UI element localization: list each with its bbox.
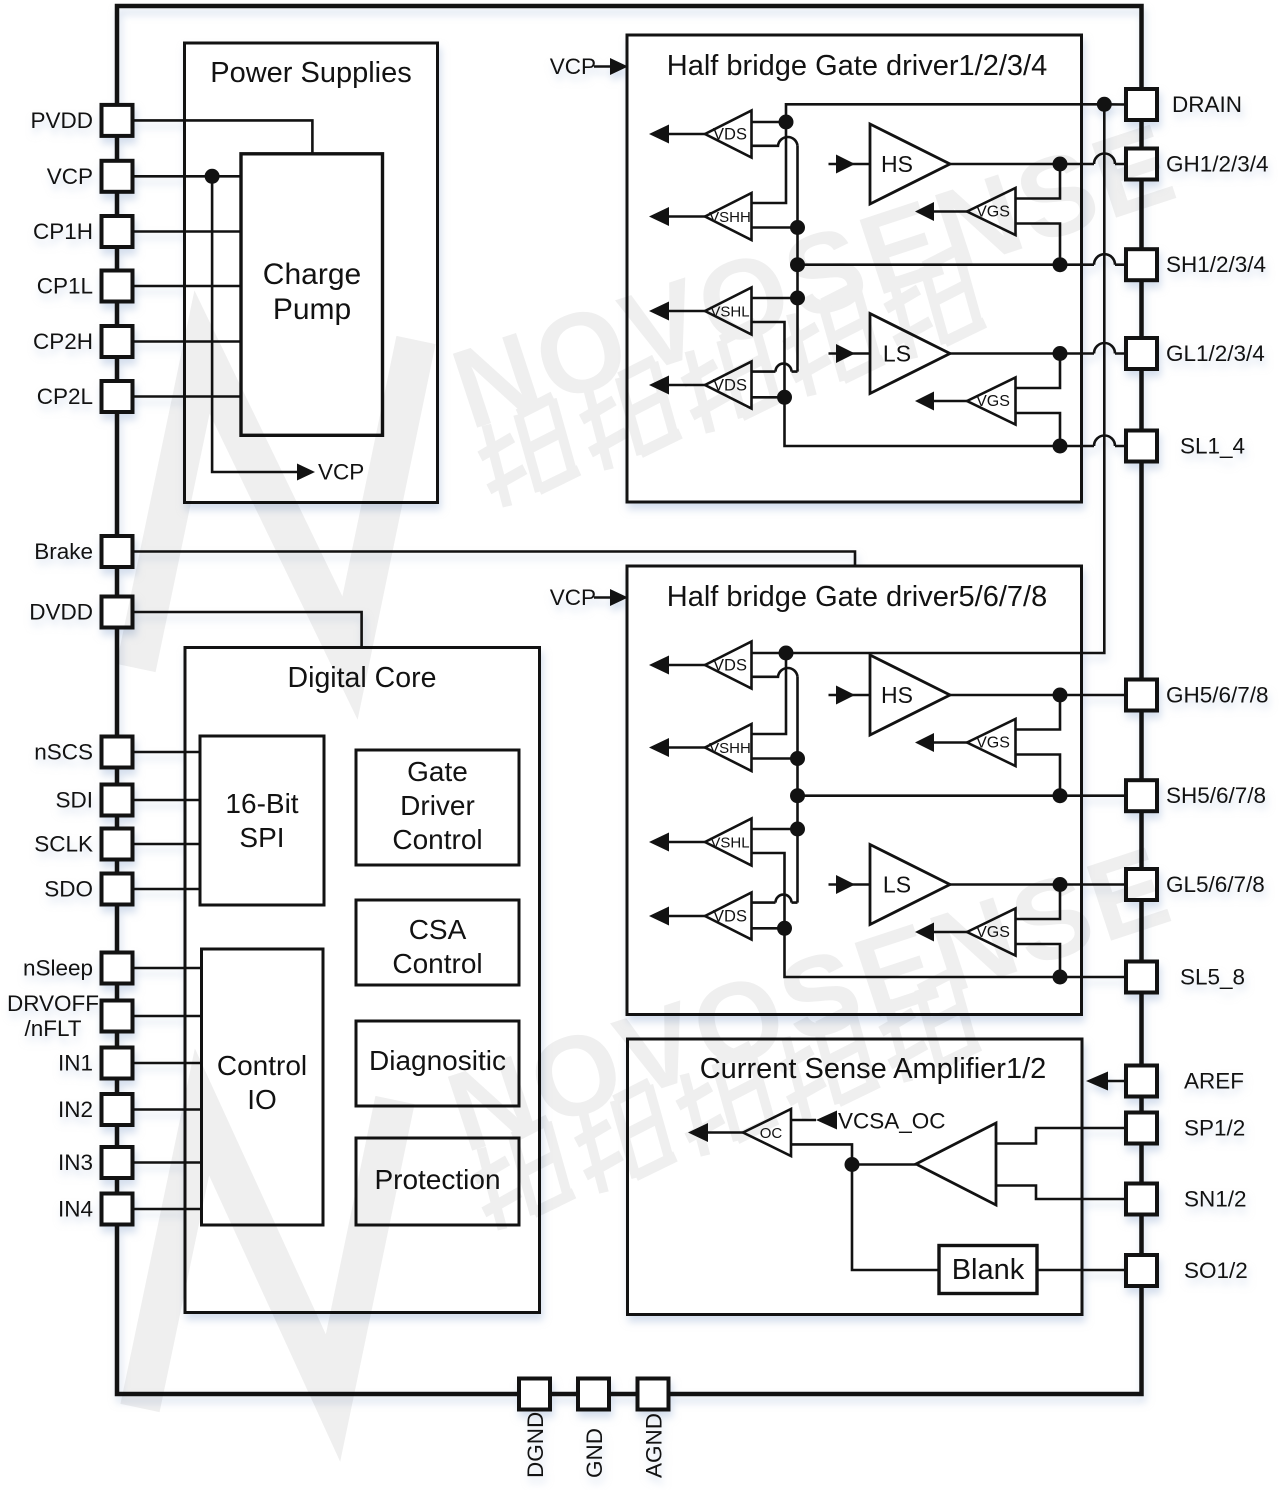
svg-text:CSA: CSA: [409, 914, 467, 945]
svg-text:VCP: VCP: [550, 54, 596, 79]
svg-text:PVDD: PVDD: [30, 108, 93, 133]
svg-text:VCP: VCP: [550, 585, 596, 610]
svg-text:nSleep: nSleep: [23, 956, 93, 981]
svg-text:VCP: VCP: [47, 164, 93, 189]
svg-text:Gate: Gate: [407, 756, 468, 787]
svg-text:/nFLT: /nFLT: [24, 1016, 81, 1041]
svg-text:VDS: VDS: [713, 657, 747, 675]
svg-text:Driver: Driver: [400, 790, 475, 821]
svg-text:SPI: SPI: [239, 822, 284, 853]
svg-text:IO: IO: [247, 1084, 277, 1115]
svg-text:SN1/2: SN1/2: [1184, 1187, 1247, 1212]
svg-text:DVDD: DVDD: [29, 600, 93, 625]
svg-text:nSCS: nSCS: [34, 740, 93, 765]
svg-text:SL5_8: SL5_8: [1180, 965, 1245, 990]
svg-text:CP1H: CP1H: [33, 219, 93, 244]
svg-text:SCLK: SCLK: [34, 832, 93, 857]
svg-text:AREF: AREF: [1184, 1069, 1244, 1094]
svg-text:IN3: IN3: [58, 1150, 93, 1175]
svg-text:Half bridge Gate driver5/6/7/8: Half bridge Gate driver5/6/7/8: [667, 581, 1047, 613]
svg-text:VDS: VDS: [713, 126, 747, 144]
svg-text:16-Bit: 16-Bit: [225, 788, 298, 819]
svg-text:Control: Control: [392, 824, 482, 855]
svg-text:DRVOFF: DRVOFF: [7, 991, 99, 1016]
svg-text:HS: HS: [881, 682, 913, 708]
svg-text:DRAIN: DRAIN: [1172, 92, 1242, 117]
svg-text:VDS: VDS: [713, 908, 747, 926]
svg-text:SP1/2: SP1/2: [1184, 1116, 1245, 1141]
svg-text:IN4: IN4: [58, 1197, 93, 1222]
svg-text:SH1/2/3/4: SH1/2/3/4: [1166, 252, 1266, 277]
svg-text:Control: Control: [392, 948, 482, 979]
svg-text:DGND: DGND: [523, 1412, 548, 1478]
svg-text:Blank: Blank: [952, 1254, 1025, 1286]
svg-text:Half bridge Gate driver1/2/3/4: Half bridge Gate driver1/2/3/4: [667, 50, 1047, 82]
svg-text:Brake: Brake: [34, 539, 93, 564]
svg-text:VCSA_OC: VCSA_OC: [838, 1109, 946, 1134]
svg-text:GND: GND: [582, 1428, 607, 1478]
svg-text:Pump: Pump: [273, 293, 351, 326]
svg-text:GL1/2/3/4: GL1/2/3/4: [1166, 341, 1265, 366]
svg-text:VGS: VGS: [976, 735, 1010, 752]
svg-text:VGS: VGS: [976, 393, 1010, 410]
svg-text:IN2: IN2: [58, 1097, 93, 1122]
svg-text:Power Supplies: Power Supplies: [210, 57, 412, 89]
svg-text:HS: HS: [881, 151, 913, 177]
svg-text:VSHL: VSHL: [710, 835, 749, 852]
svg-text:GL5/6/7/8: GL5/6/7/8: [1166, 872, 1265, 897]
svg-text:GH1/2/3/4: GH1/2/3/4: [1166, 152, 1269, 177]
svg-text:Charge: Charge: [263, 258, 361, 291]
svg-text:SO1/2: SO1/2: [1184, 1258, 1248, 1283]
svg-text:VSHH: VSHH: [709, 209, 751, 226]
svg-text:VSHH: VSHH: [709, 740, 751, 757]
svg-text:GH5/6/7/8: GH5/6/7/8: [1166, 683, 1269, 708]
svg-text:SH5/6/7/8: SH5/6/7/8: [1166, 783, 1266, 808]
svg-text:SDO: SDO: [44, 877, 93, 902]
svg-text:SL1_4: SL1_4: [1180, 434, 1245, 459]
svg-text:AGND: AGND: [642, 1413, 667, 1478]
svg-text:CP1L: CP1L: [37, 274, 93, 299]
svg-text:LS: LS: [883, 872, 911, 898]
svg-text:VCP: VCP: [318, 460, 364, 485]
svg-text:CP2H: CP2H: [33, 329, 93, 354]
svg-text:SDI: SDI: [55, 788, 93, 813]
svg-text:CP2L: CP2L: [37, 384, 93, 409]
svg-text:Control: Control: [217, 1050, 307, 1081]
svg-text:IN1: IN1: [58, 1051, 93, 1076]
